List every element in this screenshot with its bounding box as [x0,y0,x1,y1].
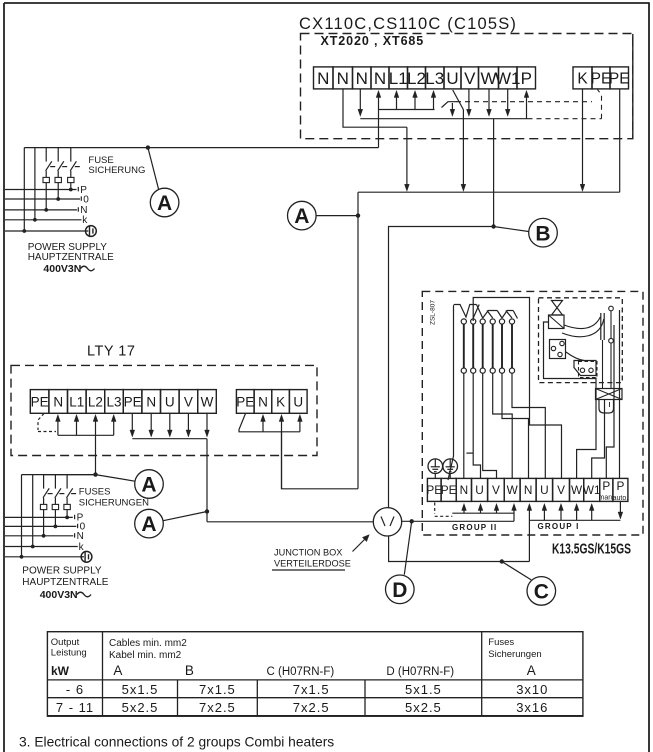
svg-text:W: W [507,483,519,497]
svg-text:K: K [577,70,588,87]
svg-text:HAUPTZENTRALE: HAUPTZENTRALE [28,252,114,263]
svg-text:0: 0 [83,194,89,205]
svg-text:Cables min. mm2: Cables min. mm2 [109,638,187,649]
svg-text:W: W [201,394,214,409]
svg-text:N: N [146,394,156,409]
svg-text:U: U [540,483,549,497]
svg-text:L3: L3 [106,394,121,409]
svg-text:PE: PE [236,394,254,409]
svg-text:SICHERUNG: SICHERUNG [88,165,145,176]
svg-text:N: N [258,394,268,409]
svg-text:5x2.5: 5x2.5 [122,700,159,715]
svg-text:Fuses: Fuses [488,637,514,648]
svg-text:N: N [460,483,469,497]
svg-text:N: N [524,483,533,497]
svg-text:A: A [294,205,309,228]
svg-text:Output: Output [51,637,80,648]
svg-text:B: B [185,663,194,678]
svg-text:3x16: 3x16 [516,700,548,715]
svg-text:kW: kW [51,664,70,678]
svg-text:FUSES: FUSES [79,487,111,498]
svg-text:GROUP I: GROUP I [538,522,580,531]
svg-text:A: A [113,663,122,678]
svg-text:3x10: 3x10 [516,682,548,697]
svg-text:7x1.5: 7x1.5 [199,682,236,697]
svg-text:N: N [77,531,84,542]
svg-text:N: N [337,69,349,88]
svg-text:V: V [492,483,500,497]
svg-text:7x1.5: 7x1.5 [293,682,330,697]
svg-text:N: N [356,69,368,88]
svg-text:C: C [534,580,549,603]
svg-text:400V3N: 400V3N [43,263,81,275]
svg-text:POWER SUPPLY: POWER SUPPLY [22,566,102,577]
svg-text:C (H07RN-F): C (H07RN-F) [267,666,335,678]
svg-text:L2: L2 [88,394,103,409]
svg-text:D: D [392,579,407,602]
svg-text:L1: L1 [389,69,408,88]
svg-text:3. Electrical connections of 2: 3. Electrical connections of 2 groups Co… [19,735,334,750]
svg-text:Sicherungen: Sicherungen [488,649,541,660]
svg-text:L3: L3 [425,69,444,88]
svg-text:7x2.5: 7x2.5 [199,700,236,715]
svg-text:D (H07RN-F): D (H07RN-F) [386,666,454,678]
svg-text:GROUP II: GROUP II [452,523,497,532]
svg-text:7 - 11: 7 - 11 [56,700,94,715]
svg-text:ZSL-807: ZSL-807 [430,300,437,325]
svg-text:V: V [557,483,565,497]
svg-text:5x1.5: 5x1.5 [405,682,442,697]
svg-text:B: B [535,222,550,245]
svg-text:L2: L2 [407,69,426,88]
svg-text:U: U [165,394,175,409]
svg-text:K: K [276,394,285,409]
svg-text:JUNCTION BOX: JUNCTION BOX [274,548,342,558]
svg-text:U: U [446,69,458,88]
svg-text:Leistung: Leistung [51,648,87,659]
svg-text:P: P [602,479,610,493]
svg-text:- 6: - 6 [66,682,84,697]
svg-text:K13.5GS/K15GS: K13.5GS/K15GS [552,541,631,558]
svg-text:400V3N: 400V3N [40,589,78,601]
svg-text:U: U [293,394,303,409]
svg-text:W: W [571,483,583,497]
svg-text:VERTEILERDOSE: VERTEILERDOSE [274,559,351,569]
svg-text:U: U [475,483,484,497]
svg-text:A: A [527,663,536,678]
svg-text:L1: L1 [69,394,84,409]
svg-text:PE: PE [441,483,457,497]
svg-text:auto.: auto. [613,495,629,502]
svg-text:XT2020 , XT685: XT2020 , XT685 [321,34,425,48]
svg-text:V: V [184,394,193,409]
svg-text:P: P [616,479,624,493]
svg-text:N: N [317,69,329,88]
svg-text:PE: PE [124,394,142,409]
svg-text:CX110C,CS110C (C105S): CX110C,CS110C (C105S) [299,15,517,33]
svg-text:N: N [53,394,63,409]
svg-text:HAUPTZENTRALE: HAUPTZENTRALE [22,577,108,588]
svg-text:A: A [157,192,172,215]
svg-text:LTY 17: LTY 17 [87,344,135,360]
svg-text:5x1.5: 5x1.5 [122,682,159,697]
svg-text:A: A [141,474,156,497]
svg-text:SICHERUNGEN: SICHERUNGEN [79,498,149,509]
svg-text:N: N [374,69,386,88]
svg-text:PE: PE [609,70,630,87]
svg-text:5x2.5: 5x2.5 [405,700,442,715]
svg-text:PE: PE [31,394,49,409]
svg-text:P: P [521,69,532,88]
svg-text:V: V [464,69,476,88]
svg-text:Kabel min. mm2: Kabel min. mm2 [109,650,182,661]
svg-text:7x2.5: 7x2.5 [293,700,330,715]
svg-text:A: A [141,513,156,536]
